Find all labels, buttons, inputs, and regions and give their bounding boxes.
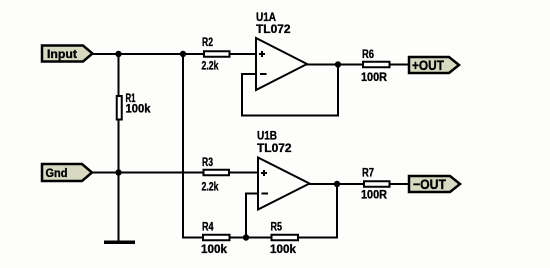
wire Gnd to R3 (92, 172, 204, 174)
op-amp U1A (256, 10, 307, 90)
node junction Gnd/R1 (115, 169, 121, 175)
svg-text:100R: 100R (361, 188, 387, 202)
svg-text:TL072: TL072 (257, 141, 292, 155)
wire R7 to -OUT tag (391, 183, 411, 185)
resistor R7 100R (361, 166, 390, 202)
wire Input to R2 (92, 53, 204, 55)
wire U1B output (309, 183, 364, 185)
wire R3 to U1B + input (230, 172, 259, 174)
wire Gnd rail down to ground (118, 173, 120, 242)
node -OUT tag (409, 176, 460, 192)
svg-text:R4: R4 (202, 220, 214, 234)
svg-text:2.2k: 2.2k (202, 180, 219, 194)
svg-text:TL072: TL072 (256, 22, 291, 36)
resistor R1 100k (117, 53, 151, 173)
svg-text:R7: R7 (362, 166, 374, 180)
node U1A output junction (335, 61, 341, 67)
node junction R4/R5/U1B- (243, 234, 249, 240)
wire R2 to U1A + input (231, 53, 258, 55)
wire R6 to +OUT tag (390, 64, 410, 66)
node Input tag (42, 46, 93, 62)
svg-text:Gnd: Gnd (46, 166, 68, 180)
svg-text:R6: R6 (362, 47, 374, 61)
node junction Input/R1 (115, 51, 121, 57)
wire U1A feedback loop (242, 65, 338, 116)
resistor R2 2.2k (202, 35, 230, 73)
svg-text:100k: 100k (270, 242, 296, 256)
resistor R6 100R (361, 47, 390, 84)
svg-text:+OUT: +OUT (412, 57, 444, 73)
svg-text:100k: 100k (126, 102, 151, 116)
wire U1A output (306, 64, 363, 66)
node junction Input/branch (180, 51, 186, 57)
wire branch vertical from Input line to R4 (183, 53, 203, 238)
resistor R3 2.2k (202, 155, 230, 194)
op-amp U1B (257, 129, 310, 210)
wire junction to R5 (246, 237, 271, 239)
wire U1B inverting input stub (246, 194, 258, 238)
svg-text:−OUT: −OUT (413, 176, 446, 192)
resistor R5 100k (270, 220, 298, 257)
svg-text:R3: R3 (202, 155, 213, 169)
wire R4 to junction (230, 237, 246, 239)
node +OUT tag (409, 57, 459, 73)
node U1B output junction (334, 181, 340, 187)
svg-text:2.2k: 2.2k (202, 59, 219, 73)
ground (104, 241, 135, 245)
svg-text:R2: R2 (202, 35, 213, 49)
node Gnd tag (42, 164, 92, 181)
svg-text:Input: Input (47, 47, 77, 61)
svg-text:R5: R5 (271, 220, 283, 234)
wire R5 to U1B output (299, 184, 337, 238)
svg-text:100k: 100k (201, 242, 227, 256)
svg-text:100R: 100R (361, 70, 387, 84)
resistor R4 100k (201, 220, 230, 257)
